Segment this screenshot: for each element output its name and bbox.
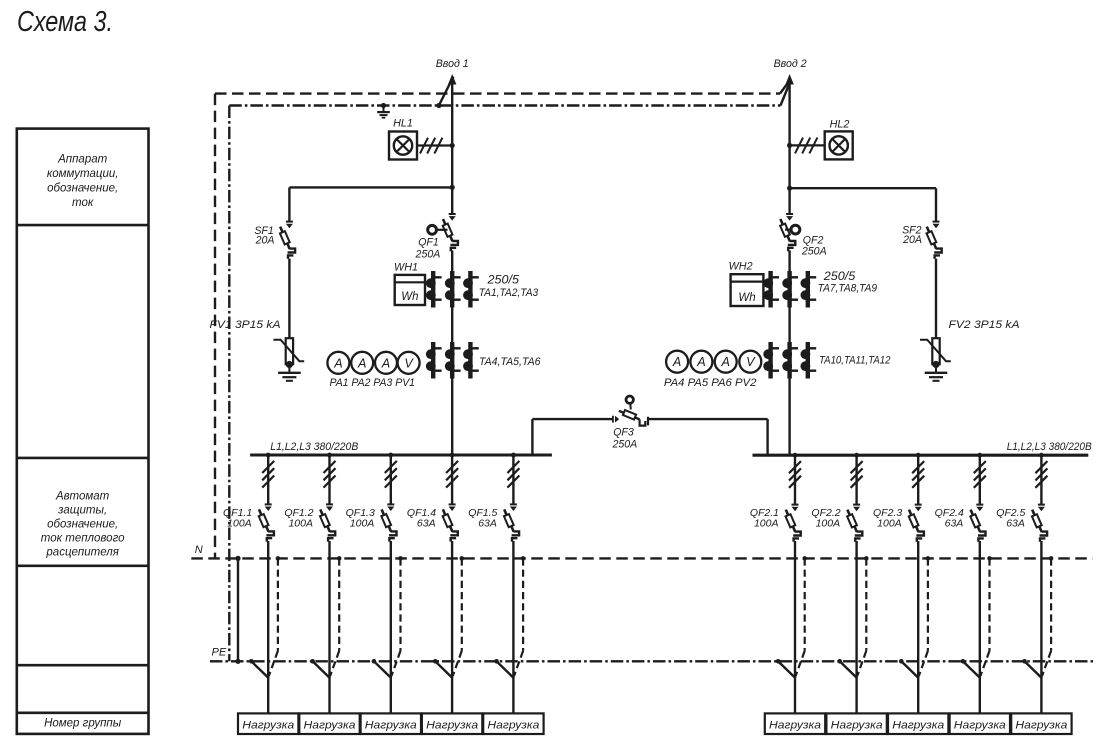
svg-text:250A: 250A: [612, 439, 638, 451]
svg-text:TA4,TA5,TA6: TA4,TA5,TA6: [479, 356, 541, 368]
svg-text:20A: 20A: [255, 235, 275, 247]
svg-text:V: V: [746, 355, 756, 369]
svg-text:ток теплового: ток теплового: [41, 533, 125, 545]
svg-text:Номер группы: Номер группы: [44, 717, 122, 729]
svg-text:TA7,TA8,TA9: TA7,TA8,TA9: [818, 283, 878, 295]
svg-text:100A: 100A: [816, 517, 841, 529]
svg-text:A: A: [381, 356, 390, 370]
svg-text:Ввод 2: Ввод 2: [774, 58, 807, 70]
svg-text:A: A: [720, 355, 729, 369]
svg-text:100A: 100A: [227, 517, 252, 529]
svg-text:63A: 63A: [945, 517, 964, 529]
svg-text:Wh: Wh: [401, 291, 418, 303]
svg-text:TA1,TA2,TA3: TA1,TA2,TA3: [479, 287, 539, 299]
svg-text:100A: 100A: [288, 517, 313, 529]
svg-text:PA4 PA5 PA6 PV2: PA4 PA5 PA6 PV2: [664, 377, 757, 389]
svg-text:250A: 250A: [415, 248, 441, 260]
svg-text:Wh: Wh: [738, 292, 755, 304]
svg-text:PA1 PA2 PA3 PV1: PA1 PA2 PA3 PV1: [330, 377, 416, 389]
svg-text:A: A: [333, 356, 342, 370]
svg-text:250A: 250A: [801, 245, 827, 257]
svg-text:N: N: [195, 544, 203, 556]
svg-text:A: A: [672, 355, 681, 369]
svg-text:V: V: [404, 356, 414, 370]
svg-text:Схема 3.: Схема 3.: [17, 6, 113, 38]
svg-text:20A: 20A: [902, 234, 922, 246]
svg-text:L1,L2,L3 380/220В: L1,L2,L3 380/220В: [270, 441, 358, 453]
svg-text:коммутации,: коммутации,: [47, 168, 119, 180]
svg-text:100A: 100A: [877, 517, 902, 529]
svg-text:100A: 100A: [754, 517, 779, 529]
svg-text:PE: PE: [212, 646, 227, 658]
svg-text:QF1: QF1: [418, 237, 439, 249]
svg-text:FV2 3P15 kA: FV2 3P15 kA: [949, 319, 1020, 331]
svg-text:63A: 63A: [417, 517, 436, 529]
svg-text:FV1 3P15 kA: FV1 3P15 kA: [210, 319, 281, 331]
svg-text:ток: ток: [72, 197, 94, 209]
svg-text:QF3: QF3: [613, 426, 634, 438]
svg-text:обозначение,: обозначение,: [47, 519, 118, 531]
svg-text:HL2: HL2: [830, 119, 850, 131]
svg-text:HL1: HL1: [393, 117, 413, 129]
svg-text:WH2: WH2: [729, 261, 753, 273]
svg-text:250/5: 250/5: [823, 269, 856, 283]
svg-text:обозначение,: обозначение,: [47, 183, 118, 195]
svg-text:A: A: [696, 355, 705, 369]
svg-text:L1,L2,L3 380/220В: L1,L2,L3 380/220В: [1007, 441, 1092, 453]
svg-text:Аппарат: Аппарат: [57, 154, 108, 166]
svg-text:63A: 63A: [478, 517, 497, 529]
svg-text:расцепителя: расцепителя: [45, 547, 118, 559]
svg-text:Автомат: Автомат: [55, 491, 110, 503]
svg-text:63A: 63A: [1006, 517, 1025, 529]
svg-text:TA10,TA11,TA12: TA10,TA11,TA12: [819, 354, 891, 366]
svg-text:Ввод 1: Ввод 1: [436, 58, 469, 70]
svg-text:100A: 100A: [350, 517, 375, 529]
svg-text:A: A: [357, 356, 366, 370]
svg-text:WH1: WH1: [394, 261, 418, 273]
svg-text:250/5: 250/5: [486, 272, 519, 286]
svg-text:защиты,: защиты,: [57, 505, 107, 517]
